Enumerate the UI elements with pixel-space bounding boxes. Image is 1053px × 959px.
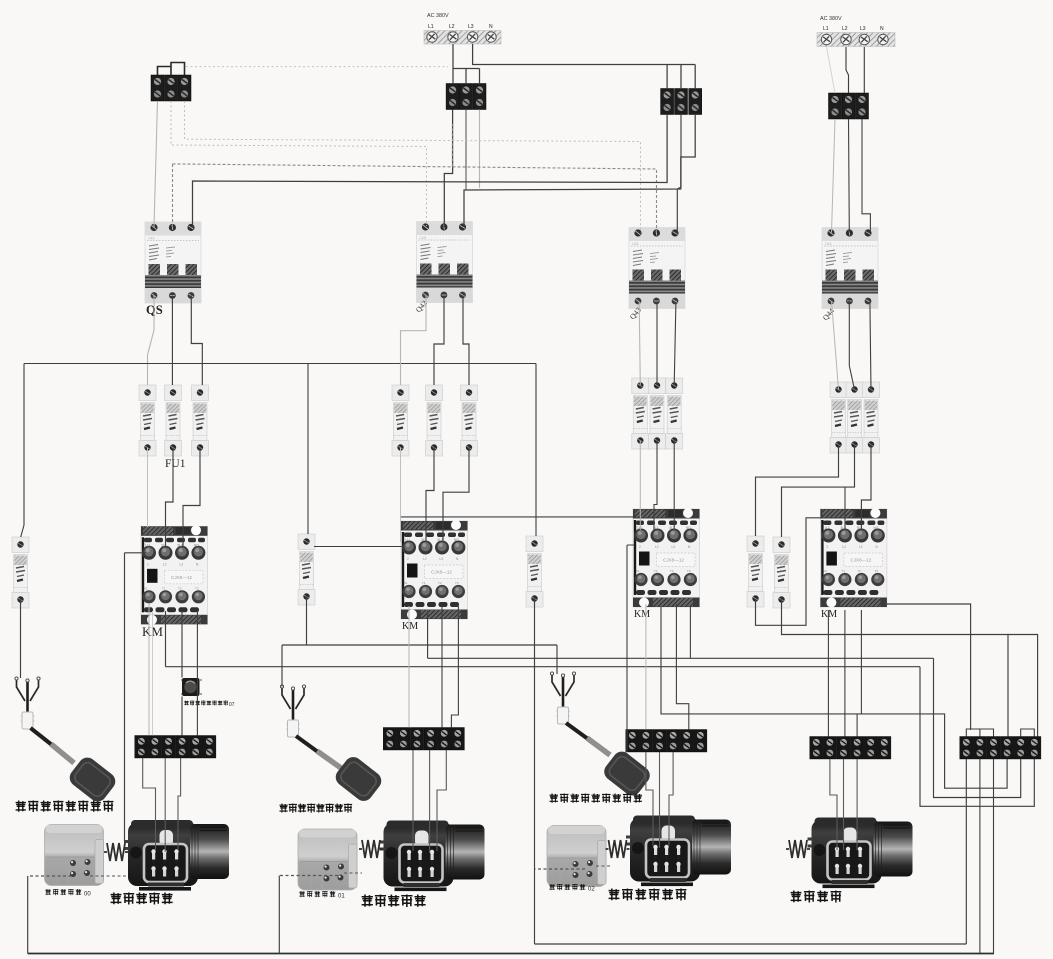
float sensor B3 float [601,748,654,799]
wire TB1-1 to QS-1 [154,101,158,227]
svg-text:L2: L2 [842,26,848,32]
motor M4 (backup) [808,818,913,889]
svg-text:01: 01 [338,894,345,900]
wire FU3-2 to KM3 [654,441,657,531]
wire XT2 to M2 v [429,750,431,853]
breaker Q43 [629,228,685,309]
pushbutton SB07 [181,678,202,696]
wire FU4-3 to KM4 [861,445,871,531]
svg-text:L1: L1 [823,26,829,32]
wire TB2-3 down [479,110,481,189]
wire TB3-2 to Q43-3 [677,114,681,233]
wire FR1 dashed right [90,875,126,877]
label gao-shui-wei-dian-ji (high water motor) [362,895,426,908]
control fuse FU8 [747,536,764,607]
control fuse FU9 [773,537,790,608]
wire XT3 to M3 v [659,752,661,848]
fuse FU1-3 [192,385,209,456]
terminal strip XT4 [810,737,891,760]
wire KM4-T3 to XT4 [857,610,861,737]
AC input terminal X1 (top center) [424,13,501,44]
wire XT5-2 down [979,759,981,954]
float sensor B2 cable [296,736,318,752]
wire Q42-2 to FU2-2 [434,296,444,386]
wire FU2-2 to KM2 [426,448,434,543]
wire dotted from TB1 jumper [186,66,448,68]
fuse FU1-2 [165,385,182,456]
wire KM4-T2 to XT4 [844,610,846,737]
wire XT1 to M1 w [178,758,181,850]
wire tap to KM4-2 [844,487,846,530]
contactor KM1 [141,525,208,625]
jumper wires on TB1 [158,63,185,76]
wire KM2-T2 to XT2 [441,606,443,728]
wire KM1-T3 to XT1 [196,611,198,736]
wire FU5 to float B1 [20,600,22,679]
wire control bus to FU7 [535,364,537,537]
wire KM1 coil feed [125,553,147,841]
wire KM1 via SB07 to XT1 [181,611,183,736]
wire TB2-1 to Q42 [444,110,452,228]
label wen-du-ji-dian-qi 02 (thermal relay 02) [549,884,585,890]
wire XT4 to M4 w [856,759,858,850]
wire QS-2 riser dashed [172,164,174,227]
wire dotted TB1-3 to Q43-1 [185,101,641,233]
wire KM2-T3 to XT2 [451,606,458,728]
wire KM4 to XT5 jumper [887,604,971,730]
wire FU3-1 to KM3 [639,441,641,531]
wire FU8 to KM4 coil [756,518,821,626]
wire Q42-3 to FU2-3 [463,296,469,386]
wire FU6 to KM2 coil [314,546,403,548]
contactor KM4 [820,508,887,608]
label di-shui-wei-dian-ji (low water motor) [111,893,173,905]
wire Q43-2 to FU3-2 [656,303,658,386]
wire KM2-KM3 coil link [401,516,633,518]
wire control bus [24,363,536,365]
wire control bus to FU6 [307,364,309,535]
label wen-du-ji-dian-qi 00 (thermal relay 00) [45,889,81,895]
wire FU1-1 to KM1 [147,448,149,527]
terminal block TB2 (below AC X1) [446,84,486,110]
wire KM4-T1 to XT4 [827,610,829,737]
fuse FU2-2 [426,385,443,456]
wire L1b faint [827,47,836,93]
wire XT2 to M2 w [437,750,446,851]
label di-shui-wei-fu-qiu-chuan-gan-qi (low water float sensor) [16,801,114,813]
wire TB4-3 to Q44-3 [862,119,870,233]
label jing-jie-shui-wei-dian-ji (alert water motor) [609,889,687,901]
wire FU2-1 to KM2 [400,448,402,543]
wire FU4-2 to FU9 [782,445,855,538]
wire Q43-3 to FU3-3 [674,303,676,386]
terminal block TB1 (top left) [151,75,191,101]
wire Q44-2 to FU4-2 [849,301,854,390]
svg-text:L1: L1 [428,24,434,30]
motor M3 (alert water) [626,816,731,887]
wire FR1 to bottom bus [27,876,29,954]
wire FU3-3 to KM3 [673,441,675,531]
float sensor B1 float [66,754,119,805]
svg-text:AC 380V: AC 380V [820,16,842,22]
wire dashed riser at TB2 [451,124,453,166]
breaker Q44 [822,228,878,309]
control fuse FU7 [526,536,543,607]
thermal relay FR2 [298,829,357,890]
terminal strip XT5 [960,737,1041,760]
coupling spring S4 [786,840,810,858]
contactor KM3 [633,508,700,608]
wire Q44-3 to FU4-3 [870,301,871,390]
float sensor B2 float [332,753,385,804]
wire light under KM1 [152,611,154,736]
fuse FU2-3 [461,385,478,456]
wire FR2 dashed [279,875,338,877]
control fuse FU5 [12,537,29,608]
motor M2 (high water) [380,821,485,892]
svg-text:07: 07 [229,702,235,708]
wire FU9 to XT5-4 top [782,600,1038,737]
label zi-dong-fu-wei-an-niu-kai-guan 07 (auto reset button 07) [184,701,228,706]
wire FR1 dashed [28,875,72,877]
label bei-yong-dian-ji (backup motor) [791,891,842,903]
svg-text:KM: KM [402,621,418,632]
wire TB4-2 to Q44-2 [848,119,851,233]
contactor KM2 [401,520,468,620]
thermal relay FR1 [45,825,104,886]
wire XT5-1 to bus B [965,759,967,944]
wire XT5 jumpers [966,729,1034,737]
wire dotted TB1-2 to Q42-1 [171,101,427,226]
wire FU7 to bus B [534,599,536,945]
wire FU1-3 to KM1 [183,448,200,548]
wire dashed bus to Q43-2 [173,164,657,233]
svg-text:L3: L3 [860,26,866,32]
wire bus D to XT5-6 [166,667,1035,807]
coupling spring S1 [104,843,128,861]
label jing-jie-shui-wei-fu-qiu-chuan-gan-qi (alert water float sensor) [549,794,642,804]
wire QS-3 to FU1-3 [191,296,202,386]
wire KM3 coil drop [627,545,634,752]
wire bottom bus B [535,943,967,945]
wire FU2-3 to KM2 [443,448,469,543]
fuse FU3-1 [632,378,649,449]
terminal block TB4 (top far right) [829,93,869,119]
wire XT3 to M3 u [646,752,653,846]
svg-text:KM: KM [821,609,837,620]
wire bus E to XT5-4 [661,607,1007,788]
wire TB2-2 down [465,110,467,190]
svg-text:KM: KM [634,609,650,620]
wire QS-2 to FU1-2 [171,296,173,386]
wire FR3 dashed [535,868,586,870]
AC input terminal X2 (top right) [817,16,895,47]
label wen-du-ji-dian-qi 01 (thermal relay 01) [299,891,335,897]
wire control bus to FU5 [21,364,24,538]
wire XT4 to M4 u [830,759,837,850]
svg-text:N: N [489,24,493,30]
wire KM3-T3 to XT3 [676,604,688,730]
label gao-shui-wei-fu-qiu-chuan-gan-qi (high water float sensor) [279,804,352,813]
coupling spring S3 [606,840,630,858]
wire L2b to TB4 [846,47,849,93]
wire FR2 dashed right [344,872,362,874]
wire KM1 to bus D [165,611,167,667]
breaker QS [145,222,201,303]
fuse FU4-1 [830,382,847,453]
terminal strip XT3 [626,730,707,753]
fuse FU4-3 [863,382,880,453]
wire bus C to XT5-5 [428,611,1021,798]
wire L3 bus to TB3 [473,44,696,89]
wire KM1-T1 to XT1 [148,604,150,736]
wire Q42-3 to TB3-3 [464,114,695,227]
fuse FU1-1 [139,385,156,456]
float sensor B1 cable [31,728,53,745]
svg-text:L2: L2 [449,24,455,30]
wire KM2-T1 to XT2 [408,606,410,728]
fuse FU3-3 [666,378,683,449]
wire KM3-T1 to XT3 [645,604,647,730]
fuse FU4-2 [846,382,863,453]
wire XT4 to M4 v [843,759,845,850]
motor M1 (low water) [124,820,229,891]
float sensor B1 fork [15,677,40,729]
wire XT5-3 down [993,759,995,954]
wire TB4-1 to Q44-1 [832,119,836,233]
breaker Q42 [417,222,473,303]
control fuse FU6 [298,534,315,605]
wire Q44-1 to FU4-1 [832,301,839,390]
wire XT1 to M1 u [143,758,156,850]
wire KM3-T4 stub [689,607,691,658]
wire QS-3 to TB3-1 [193,114,668,227]
float sensor B3 fork [550,672,575,724]
svg-text:N: N [880,26,884,32]
wire float feed bus [282,645,557,687]
fuse FU2-1 [392,385,409,456]
thermal relay FR3 [547,826,606,887]
wire QS-1 to FU1-1 [148,296,155,386]
wire XT3 to M3 w [669,752,673,846]
wire Q42-1 to FU2-1 [401,296,427,386]
wire L3b to TB4 [863,47,865,93]
svg-text:02: 02 [588,887,595,893]
coupling spring S2 [359,840,383,858]
wire XT2 to M2 u [412,750,414,851]
wire FR3 dashed right [596,865,612,867]
terminal strip XT2 [383,728,464,751]
wire FU4-1 to FU8 [756,445,839,537]
float sensor B2 fork [280,685,305,737]
svg-text:AC 380V: AC 380V [427,13,449,19]
wire FR2 drop solid [278,876,280,954]
wire L2 to TB2 [453,44,480,84]
wire FU6 down [306,597,308,646]
terminal strip XT1 [135,736,216,759]
svg-text:FU1: FU1 [165,458,186,470]
wire Q43-1 to FU3-1 [639,303,640,386]
svg-text:L3: L3 [468,24,474,30]
wire XT1 to M1 v [164,758,166,852]
wire FU1-2 to KM1 [166,448,174,548]
svg-text:00: 00 [84,892,91,898]
float sensor B3 cable [566,723,588,739]
wire bottom bus A [28,953,994,955]
terminal block TB3 (center right) [661,89,702,115]
fuse FU3-2 [649,378,666,449]
